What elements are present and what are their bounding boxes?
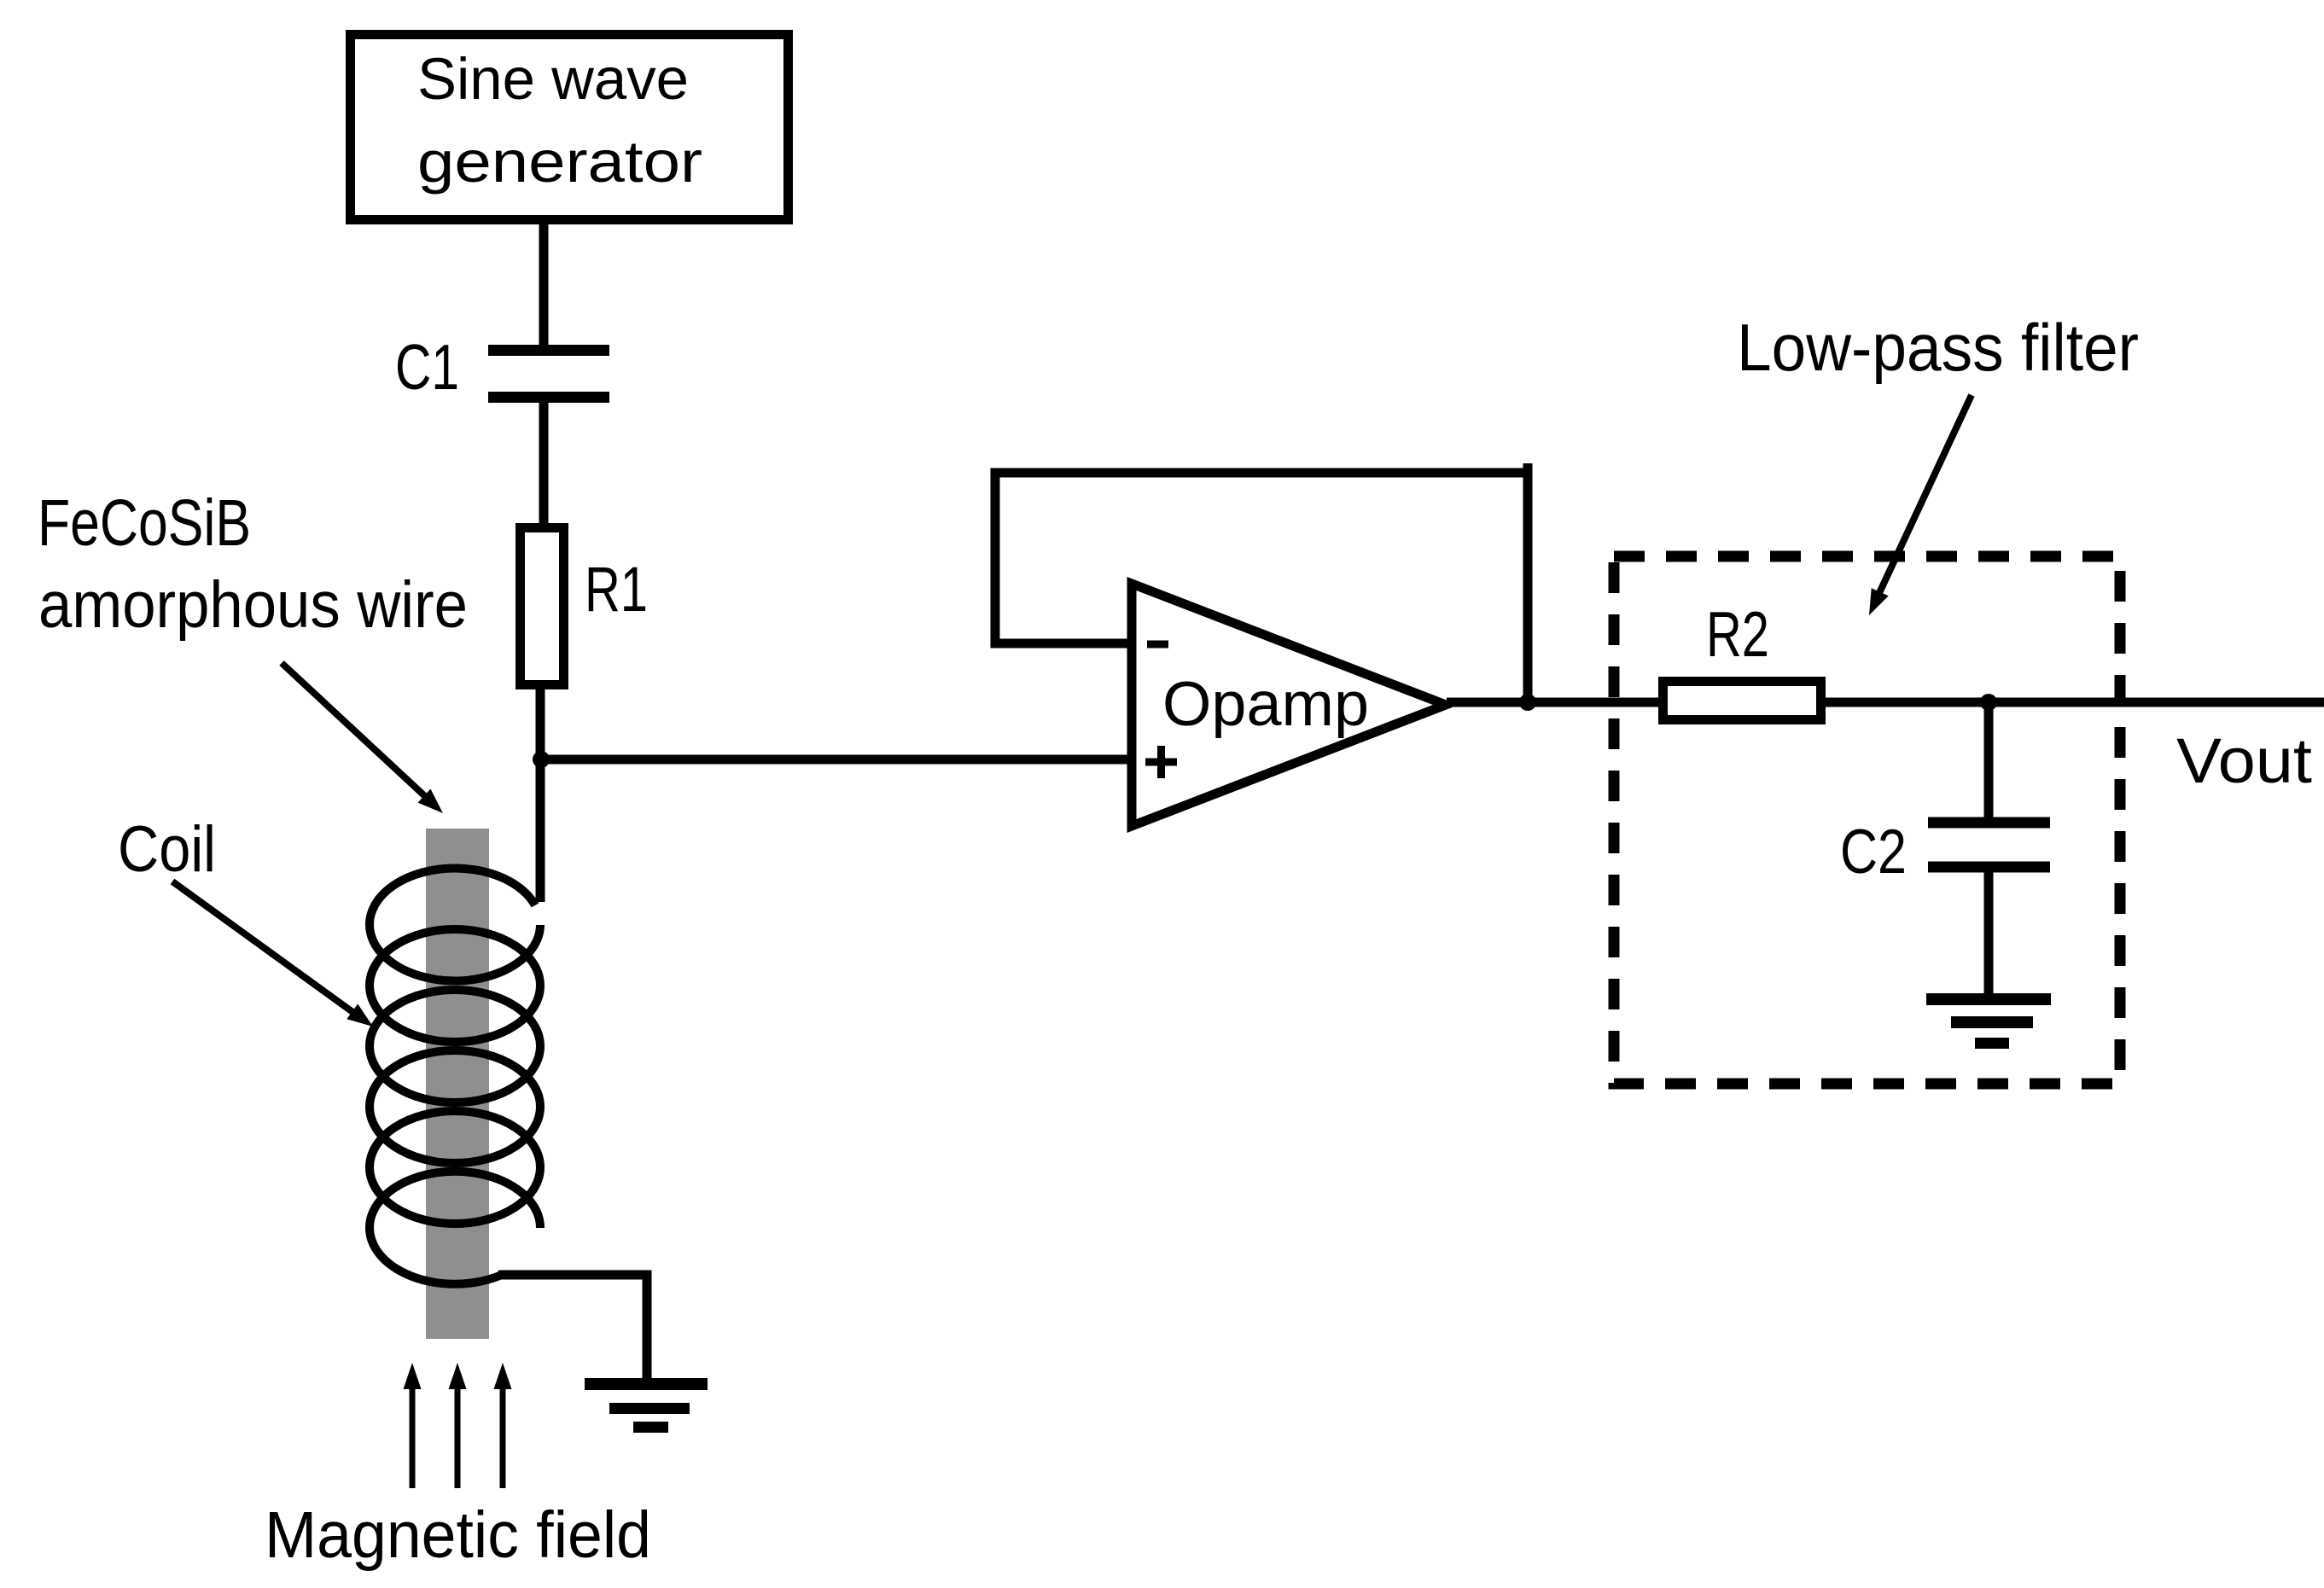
sine wave generator box [351, 35, 789, 220]
wire generator to C1 [539, 220, 549, 350]
svg-text:Vout: Vout [2176, 725, 2312, 796]
arrow to low-pass box [1869, 395, 1972, 615]
capacitor C2 [1928, 823, 2050, 867]
ground (low-pass filter) [1926, 999, 2051, 1044]
wire C1 to R1 [539, 397, 549, 529]
wire junction to op-amp + input [541, 755, 1136, 765]
node output junction [1519, 694, 1536, 711]
FeCoSiB amorphous wire (gray bar) [426, 829, 489, 1339]
feedback wire [995, 473, 1528, 702]
plus sign (non-inverting input) [1145, 746, 1177, 778]
wire junction to C2 [1984, 702, 1994, 817]
svg-text:C2: C2 [1840, 817, 1907, 887]
resistor R1 [521, 528, 564, 685]
magnetic field arrows [404, 1363, 512, 1488]
arrow to amorphous wire [282, 663, 443, 813]
arrow to coil [172, 881, 373, 1027]
feedback corner stub [1523, 463, 1533, 478]
wire C2 to ground [1984, 867, 1994, 999]
wire coil to ground [498, 1275, 647, 1381]
node C2 junction [1980, 694, 1997, 711]
svg-text:generator: generator [417, 129, 702, 195]
svg-text:Sine wave: Sine wave [417, 46, 689, 112]
op-amp U1 [1132, 584, 1446, 826]
minus sign (inverting input) [1147, 641, 1168, 649]
svg-text:C1: C1 [395, 331, 459, 403]
output wire to Vout [1447, 698, 2324, 707]
svg-text:Magnetic field: Magnetic field [265, 1498, 651, 1572]
coil L1 [370, 869, 540, 1284]
svg-text:R2: R2 [1706, 598, 1769, 670]
svg-text:Opamp: Opamp [1162, 670, 1369, 739]
label FeCoSiB amorphous wire [38, 486, 468, 642]
node A junction below R1 [533, 751, 550, 768]
svg-text:amorphous wire: amorphous wire [38, 568, 468, 642]
low-pass filter dashed box [1614, 556, 2120, 1084]
ground (coil) [585, 1384, 708, 1428]
svg-text:Low-pass filter: Low-pass filter [1737, 310, 2139, 385]
svg-text:FeCoSiB: FeCoSiB [38, 486, 251, 560]
resistor R2 [1663, 682, 1821, 720]
capacitor C1 [488, 351, 609, 398]
svg-text:Coil: Coil [118, 813, 216, 886]
wire R1 to coil [536, 685, 545, 902]
svg-text:R1: R1 [585, 554, 648, 625]
label Sine wave generator [417, 46, 702, 195]
